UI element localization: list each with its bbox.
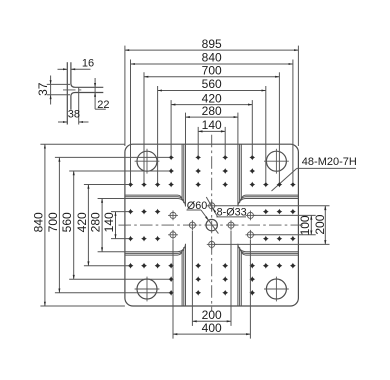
svg-text:700: 700 bbox=[202, 64, 222, 78]
svg-text:140: 140 bbox=[202, 118, 222, 132]
svg-text:37: 37 bbox=[36, 82, 50, 96]
svg-text:400: 400 bbox=[202, 321, 222, 335]
svg-text:100: 100 bbox=[298, 215, 312, 235]
svg-text:560: 560 bbox=[202, 77, 222, 91]
svg-text:38: 38 bbox=[68, 109, 80, 121]
svg-text:280: 280 bbox=[89, 212, 103, 232]
svg-text:895: 895 bbox=[202, 37, 222, 51]
svg-text:840: 840 bbox=[31, 212, 45, 232]
svg-text:140: 140 bbox=[102, 212, 116, 232]
svg-text:700: 700 bbox=[46, 212, 60, 232]
svg-text:420: 420 bbox=[75, 212, 89, 232]
svg-text:16: 16 bbox=[82, 58, 94, 70]
svg-text:200: 200 bbox=[313, 214, 327, 234]
svg-text:280: 280 bbox=[202, 104, 222, 118]
svg-text:48-M20-7H: 48-M20-7H bbox=[302, 156, 357, 168]
svg-text:560: 560 bbox=[60, 212, 74, 232]
svg-text:22: 22 bbox=[97, 99, 109, 111]
